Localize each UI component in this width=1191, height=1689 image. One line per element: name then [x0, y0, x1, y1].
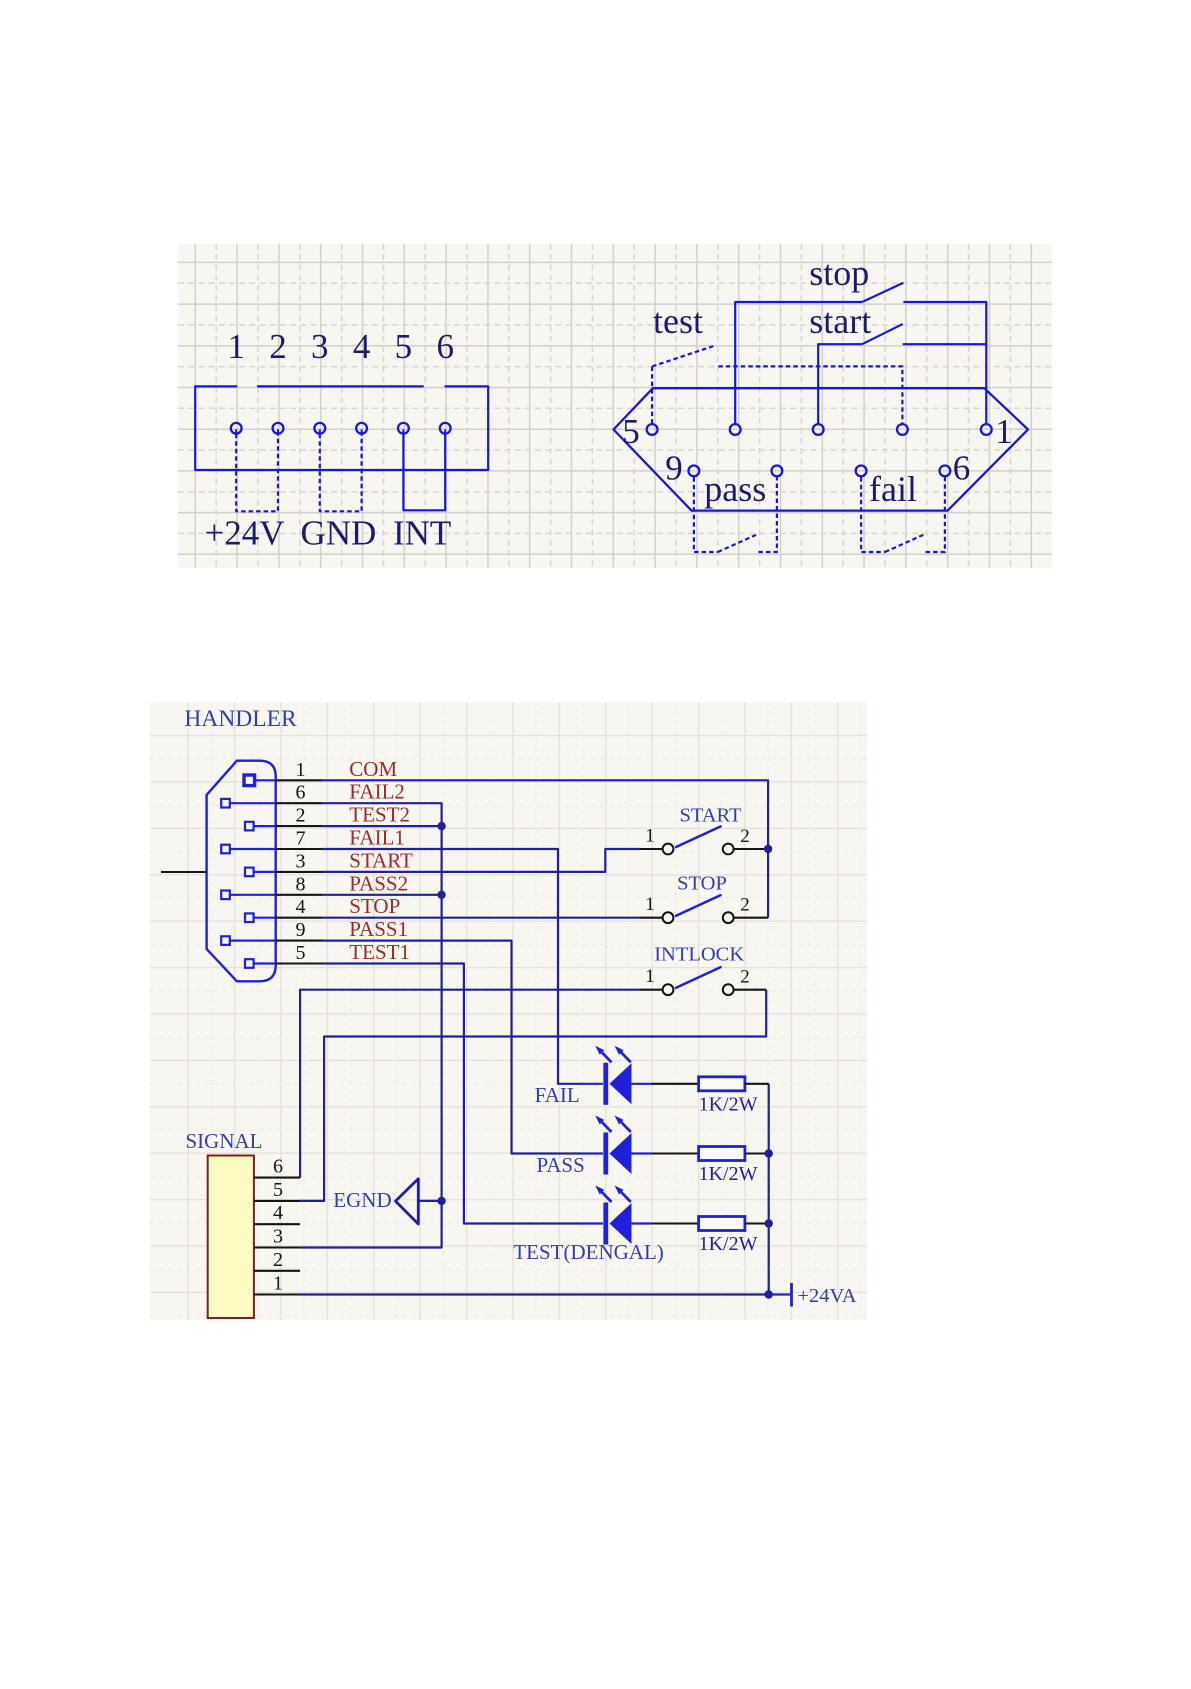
svg-text:TEST(DENGAL): TEST(DENGAL)	[513, 1240, 663, 1264]
svg-text:1: 1	[645, 826, 655, 847]
svg-text:INT: INT	[393, 514, 451, 553]
svg-text:1: 1	[273, 1273, 283, 1295]
svg-text:3: 3	[273, 1226, 283, 1248]
svg-text:7: 7	[296, 828, 306, 850]
svg-text:1: 1	[995, 412, 1013, 451]
svg-text:5: 5	[395, 327, 413, 366]
svg-text:TEST1: TEST1	[349, 940, 410, 964]
svg-text:pass: pass	[704, 469, 766, 509]
svg-text:2: 2	[273, 1249, 283, 1271]
svg-text:4: 4	[296, 896, 306, 918]
svg-text:1: 1	[645, 894, 655, 915]
svg-text:6: 6	[953, 449, 971, 488]
svg-text:STOP: STOP	[349, 894, 400, 918]
svg-text:1: 1	[296, 759, 306, 781]
svg-text:EGND: EGND	[333, 1188, 391, 1212]
svg-text:TEST2: TEST2	[349, 803, 410, 827]
svg-text:2: 2	[269, 327, 287, 366]
svg-text:4: 4	[273, 1202, 283, 1224]
svg-text:5: 5	[273, 1179, 283, 1201]
svg-text:4: 4	[353, 327, 371, 366]
svg-text:2: 2	[740, 967, 750, 988]
svg-text:9: 9	[665, 449, 683, 488]
svg-text:9: 9	[296, 919, 306, 941]
svg-text:3: 3	[311, 327, 329, 366]
svg-text:6: 6	[273, 1156, 283, 1178]
svg-text:8: 8	[296, 873, 306, 895]
svg-text:1: 1	[645, 966, 655, 987]
svg-text:SIGNAL: SIGNAL	[186, 1129, 263, 1153]
svg-text:1K/2W: 1K/2W	[699, 1093, 758, 1115]
svg-text:5: 5	[296, 942, 306, 964]
svg-text:2: 2	[296, 805, 306, 827]
svg-text:PASS: PASS	[537, 1153, 585, 1177]
svg-text:FAIL1: FAIL1	[349, 826, 405, 850]
svg-text:test: test	[653, 301, 703, 341]
svg-text:START: START	[679, 805, 742, 827]
svg-text:stop: stop	[809, 253, 869, 293]
svg-text:1K/2W: 1K/2W	[699, 1163, 758, 1185]
svg-text:6: 6	[436, 327, 454, 366]
svg-text:3: 3	[296, 850, 306, 872]
svg-text:FAIL2: FAIL2	[349, 780, 405, 804]
svg-text:+24V: +24V	[205, 514, 285, 553]
svg-text:1: 1	[227, 327, 245, 366]
svg-text:HANDLER: HANDLER	[184, 706, 297, 732]
svg-text:PASS1: PASS1	[349, 917, 408, 941]
svg-text:START: START	[349, 848, 413, 872]
svg-text:5: 5	[622, 412, 640, 451]
svg-text:2: 2	[740, 826, 750, 847]
svg-text:start: start	[809, 301, 871, 341]
svg-text:fail: fail	[869, 469, 917, 509]
svg-text:6: 6	[296, 782, 306, 804]
svg-text:FAIL: FAIL	[535, 1083, 580, 1107]
svg-text:+24VA: +24VA	[798, 1285, 857, 1307]
svg-text:1K/2W: 1K/2W	[699, 1233, 758, 1255]
svg-text:INTLOCK: INTLOCK	[654, 944, 744, 966]
svg-text:2: 2	[740, 895, 750, 916]
svg-text:STOP: STOP	[677, 873, 727, 895]
svg-text:GND: GND	[301, 514, 377, 553]
svg-text:PASS2: PASS2	[349, 871, 408, 895]
svg-text:COM: COM	[349, 757, 397, 781]
